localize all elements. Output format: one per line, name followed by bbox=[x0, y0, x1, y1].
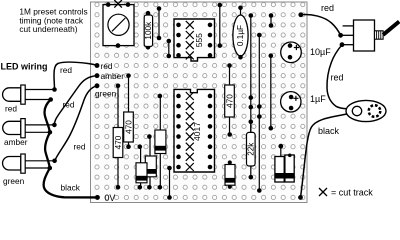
capacitor pair (two radial caps side by side) bbox=[275, 144, 294, 182]
svg-text:22k: 22k bbox=[246, 142, 255, 156]
svg-text:green: green bbox=[3, 176, 25, 186]
LED green bbox=[3, 154, 57, 173]
LED amber bbox=[3, 119, 57, 138]
IC U1 555 bbox=[174, 19, 215, 61]
svg-text:red: red bbox=[74, 142, 86, 152]
wire red LED to board bbox=[54, 62, 97, 89]
svg-text:black: black bbox=[318, 126, 340, 136]
svg-text:10µF: 10µF bbox=[310, 47, 331, 57]
resistor 470 #1 (green) bbox=[113, 84, 123, 190]
svg-text:0.1µF: 0.1µF bbox=[236, 25, 245, 46]
svg-text:1µF: 1µF bbox=[310, 94, 326, 104]
node red (board entry) bbox=[95, 61, 113, 71]
svg-text:green: green bbox=[95, 89, 117, 99]
svg-text:470: 470 bbox=[114, 135, 123, 149]
IC U2 4017 bbox=[174, 89, 215, 172]
svg-text:amber: amber bbox=[101, 71, 125, 81]
wire link to 0V row bbox=[167, 166, 172, 200]
board red dot top right + wire to switch bbox=[298, 12, 340, 35]
svg-text:LED wiring: LED wiring bbox=[1, 62, 48, 72]
stripboard bbox=[91, 2, 308, 203]
svg-text:black: black bbox=[61, 183, 81, 193]
svg-text:cut underneath): cut underneath) bbox=[19, 24, 77, 34]
battery clip bbox=[346, 100, 386, 121]
resistor 470 #3 (red) bbox=[225, 63, 235, 137]
node green (board entry) bbox=[95, 83, 117, 98]
diode D2 bbox=[145, 134, 156, 189]
legend: X = cut track bbox=[319, 188, 327, 196]
capacitor 1uF bbox=[281, 92, 301, 112]
cut track X at preset bbox=[114, 0, 122, 8]
diode D4 right of 4017 bbox=[225, 160, 235, 189]
resistor 470 #2 (amber) bbox=[124, 73, 134, 149]
svg-text:= cut track: = cut track bbox=[331, 188, 373, 198]
diode D1 bbox=[155, 94, 166, 190]
wire amber LED to board bbox=[54, 76, 97, 125]
capacitor 10uF bbox=[281, 42, 302, 63]
wire link lower-left of 555 bbox=[167, 39, 172, 59]
svg-text:red: red bbox=[331, 73, 344, 83]
wire battery clip to board (black) bbox=[301, 114, 347, 197]
svg-text:555: 555 bbox=[194, 33, 204, 47]
svg-text:470: 470 bbox=[124, 120, 133, 134]
svg-text:red: red bbox=[60, 65, 72, 75]
svg-text:red: red bbox=[321, 3, 334, 13]
svg-text:red: red bbox=[5, 103, 17, 113]
wire switch to battery clip (red) bbox=[327, 45, 347, 109]
diode D3 bbox=[136, 144, 147, 189]
preset VR1 1M bbox=[103, 2, 134, 48]
node amber (board entry) bbox=[95, 71, 125, 81]
capacitor 0.1uF bbox=[233, 6, 248, 60]
note text: 1M preset bbox=[19, 6, 87, 34]
wire green LED to board bbox=[55, 86, 97, 161]
wire link right of 0.1uF cap bbox=[269, 13, 274, 28]
node 0V (board entry) bbox=[95, 193, 115, 203]
wire link right of 555 bbox=[218, 3, 223, 48]
svg-text:amber: amber bbox=[4, 137, 28, 147]
svg-text:red: red bbox=[101, 61, 113, 71]
svg-text:470: 470 bbox=[225, 94, 234, 108]
long wire link, 555 output column down to 0V row bbox=[257, 33, 262, 193]
black common wire LEDs to 0V bbox=[44, 100, 98, 198]
wire link, 555 to 4017 clock column bbox=[269, 53, 274, 130]
svg-text:4017: 4017 bbox=[192, 122, 202, 141]
svg-text:100k: 100k bbox=[144, 21, 153, 40]
svg-text:red: red bbox=[63, 100, 75, 110]
LED red bbox=[3, 85, 57, 104]
resistor 100k bbox=[144, 11, 153, 50]
toggle switch S1 bbox=[338, 20, 399, 51]
wire link left of 555 bbox=[157, 6, 162, 40]
resistor 22k bbox=[246, 120, 255, 180]
svg-text:0V: 0V bbox=[105, 193, 116, 203]
long wire link, 555 row to 22k column bbox=[249, 13, 254, 132]
